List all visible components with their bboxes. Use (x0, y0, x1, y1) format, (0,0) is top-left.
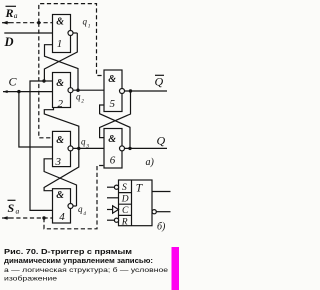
svg-text:2: 2 (58, 98, 64, 110)
svg-text:3: 3 (85, 144, 89, 150)
flip-flop cell dividers (119, 193, 132, 216)
label q3 (81, 137, 89, 150)
gate U4 output bubble (68, 204, 73, 209)
svg-text:D: D (121, 195, 129, 205)
pin C line (107, 209, 113, 211)
wire q2 feedback up to gate 1 (45, 45, 79, 90)
pin Q line right (152, 191, 171, 193)
svg-text:а — логическая структура; б —: а — логическая структура; б — условное (4, 266, 168, 274)
svg-text:C: C (122, 206, 129, 216)
label Qbar (155, 75, 165, 89)
wire Ra trunk down to gate 3 top input (39, 23, 53, 138)
wire Qbar descent to gate 6 top input (100, 91, 131, 138)
svg-text:4: 4 (83, 210, 86, 217)
svg-text:1: 1 (57, 38, 63, 50)
wire q3 output to gate 6 (73, 147, 104, 149)
svg-text:R: R (121, 218, 128, 228)
gate U6 box (104, 129, 122, 169)
pin D line (107, 197, 119, 199)
wire C branch down to gate 3 (19, 92, 53, 147)
wire q1 into gate 2 top input (44, 80, 53, 82)
wire q3 down to gate 4 top input (44, 148, 79, 190)
svg-text:6: 6 (110, 155, 116, 167)
label q4 (78, 204, 86, 217)
pin R bubble (114, 218, 118, 222)
svg-text:3: 3 (55, 156, 62, 168)
wire q1 output right (73, 32, 78, 34)
svg-text:&: & (108, 134, 116, 145)
node Ra input arrow (2, 21, 10, 25)
wire q4 output (73, 205, 77, 207)
label q2 (76, 92, 84, 105)
svg-text:Рис. 70. D-триггер с прямым: Рис. 70. D-триггер с прямым (4, 249, 132, 256)
svg-text:q: q (81, 137, 86, 147)
gate U4 box (53, 189, 71, 223)
label Ra (5, 6, 18, 20)
gate U3 output bubble (68, 146, 73, 151)
flip-flop divider (131, 180, 133, 226)
svg-text:а): а) (146, 157, 155, 168)
label q1 (83, 17, 91, 30)
node Sa junction (42, 216, 45, 219)
wire q3 up to gate 2 bottom (44, 108, 79, 149)
svg-text:q: q (76, 92, 81, 102)
svg-text:&: & (56, 78, 64, 89)
wire Ra dashed horizontal to gate 1 (10, 22, 53, 24)
pin S bubble (114, 185, 118, 189)
pin R line (107, 219, 114, 221)
svg-text:изображение: изображение (4, 274, 58, 282)
pin Qbar line right (156, 211, 170, 213)
node q3 junction (77, 147, 80, 150)
node Q junction (128, 147, 131, 150)
gate U1 output bubble (68, 31, 73, 36)
svg-text:2: 2 (81, 99, 84, 105)
svg-text:R: R (5, 6, 14, 20)
svg-text:D: D (4, 35, 14, 49)
pin C dynamic triangle (113, 206, 119, 213)
wire Qbar output line (124, 90, 167, 92)
node Sa input arrow (2, 216, 10, 220)
svg-text:&: & (56, 135, 64, 146)
svg-text:5: 5 (110, 98, 116, 110)
svg-text:Q: Q (157, 133, 166, 147)
label Sa (8, 200, 20, 215)
wire Q output line (124, 147, 167, 149)
svg-text:Q: Q (155, 75, 164, 89)
wire Q feedback up to gate 5 bottom input (100, 105, 130, 148)
svg-text:C: C (9, 75, 18, 89)
svg-text:S: S (8, 201, 15, 215)
svg-text:&: & (56, 190, 64, 201)
pin Qbar bubble (152, 210, 156, 214)
svg-text:1: 1 (88, 24, 91, 30)
flip-flop symbol T box (119, 180, 153, 226)
svg-text:&: & (56, 16, 64, 27)
node C junction (17, 90, 20, 93)
wire q1 descent and cross to gate 2 (44, 33, 77, 81)
node q2 junction (76, 89, 79, 92)
svg-text:S: S (122, 183, 127, 193)
svg-text:a: a (14, 11, 18, 20)
gate U1 box (53, 15, 71, 53)
node q1 junction (42, 79, 45, 82)
svg-text:4: 4 (59, 211, 65, 223)
pin S line (107, 186, 114, 188)
wire q4 feedback up to gate 3 (44, 159, 76, 206)
svg-text:q: q (78, 204, 83, 214)
svg-text:&: & (108, 74, 116, 85)
gate U5 box (104, 70, 122, 112)
gate U5 output bubble (120, 89, 125, 94)
wire q2 output to gate 5 (73, 89, 104, 91)
svg-text:б): б) (157, 221, 166, 232)
wire Sa dashed to gate 4 (10, 217, 53, 219)
wire D input line (4, 32, 52, 34)
svg-text:q: q (83, 17, 88, 27)
node Ra junction (37, 21, 40, 24)
wire q1 branch left and down to gate 4 (30, 81, 53, 210)
wire Sa around bottom to gate 6 (44, 166, 104, 229)
gate U2 output bubble (68, 88, 73, 93)
svg-text:a: a (16, 207, 20, 216)
gate U2 box (53, 73, 71, 108)
node C input arrow (3, 90, 8, 93)
node Qbar junction (129, 89, 132, 92)
svg-text:динамическим управлением запис: динамическим управлением записью: (4, 258, 153, 265)
decoration magenta bar (172, 247, 180, 290)
gate U3 box (53, 131, 71, 166)
wire C input line (3, 91, 53, 93)
gate U6 output bubble (120, 146, 125, 151)
wire Ra up over top to gate 5 (39, 4, 104, 76)
